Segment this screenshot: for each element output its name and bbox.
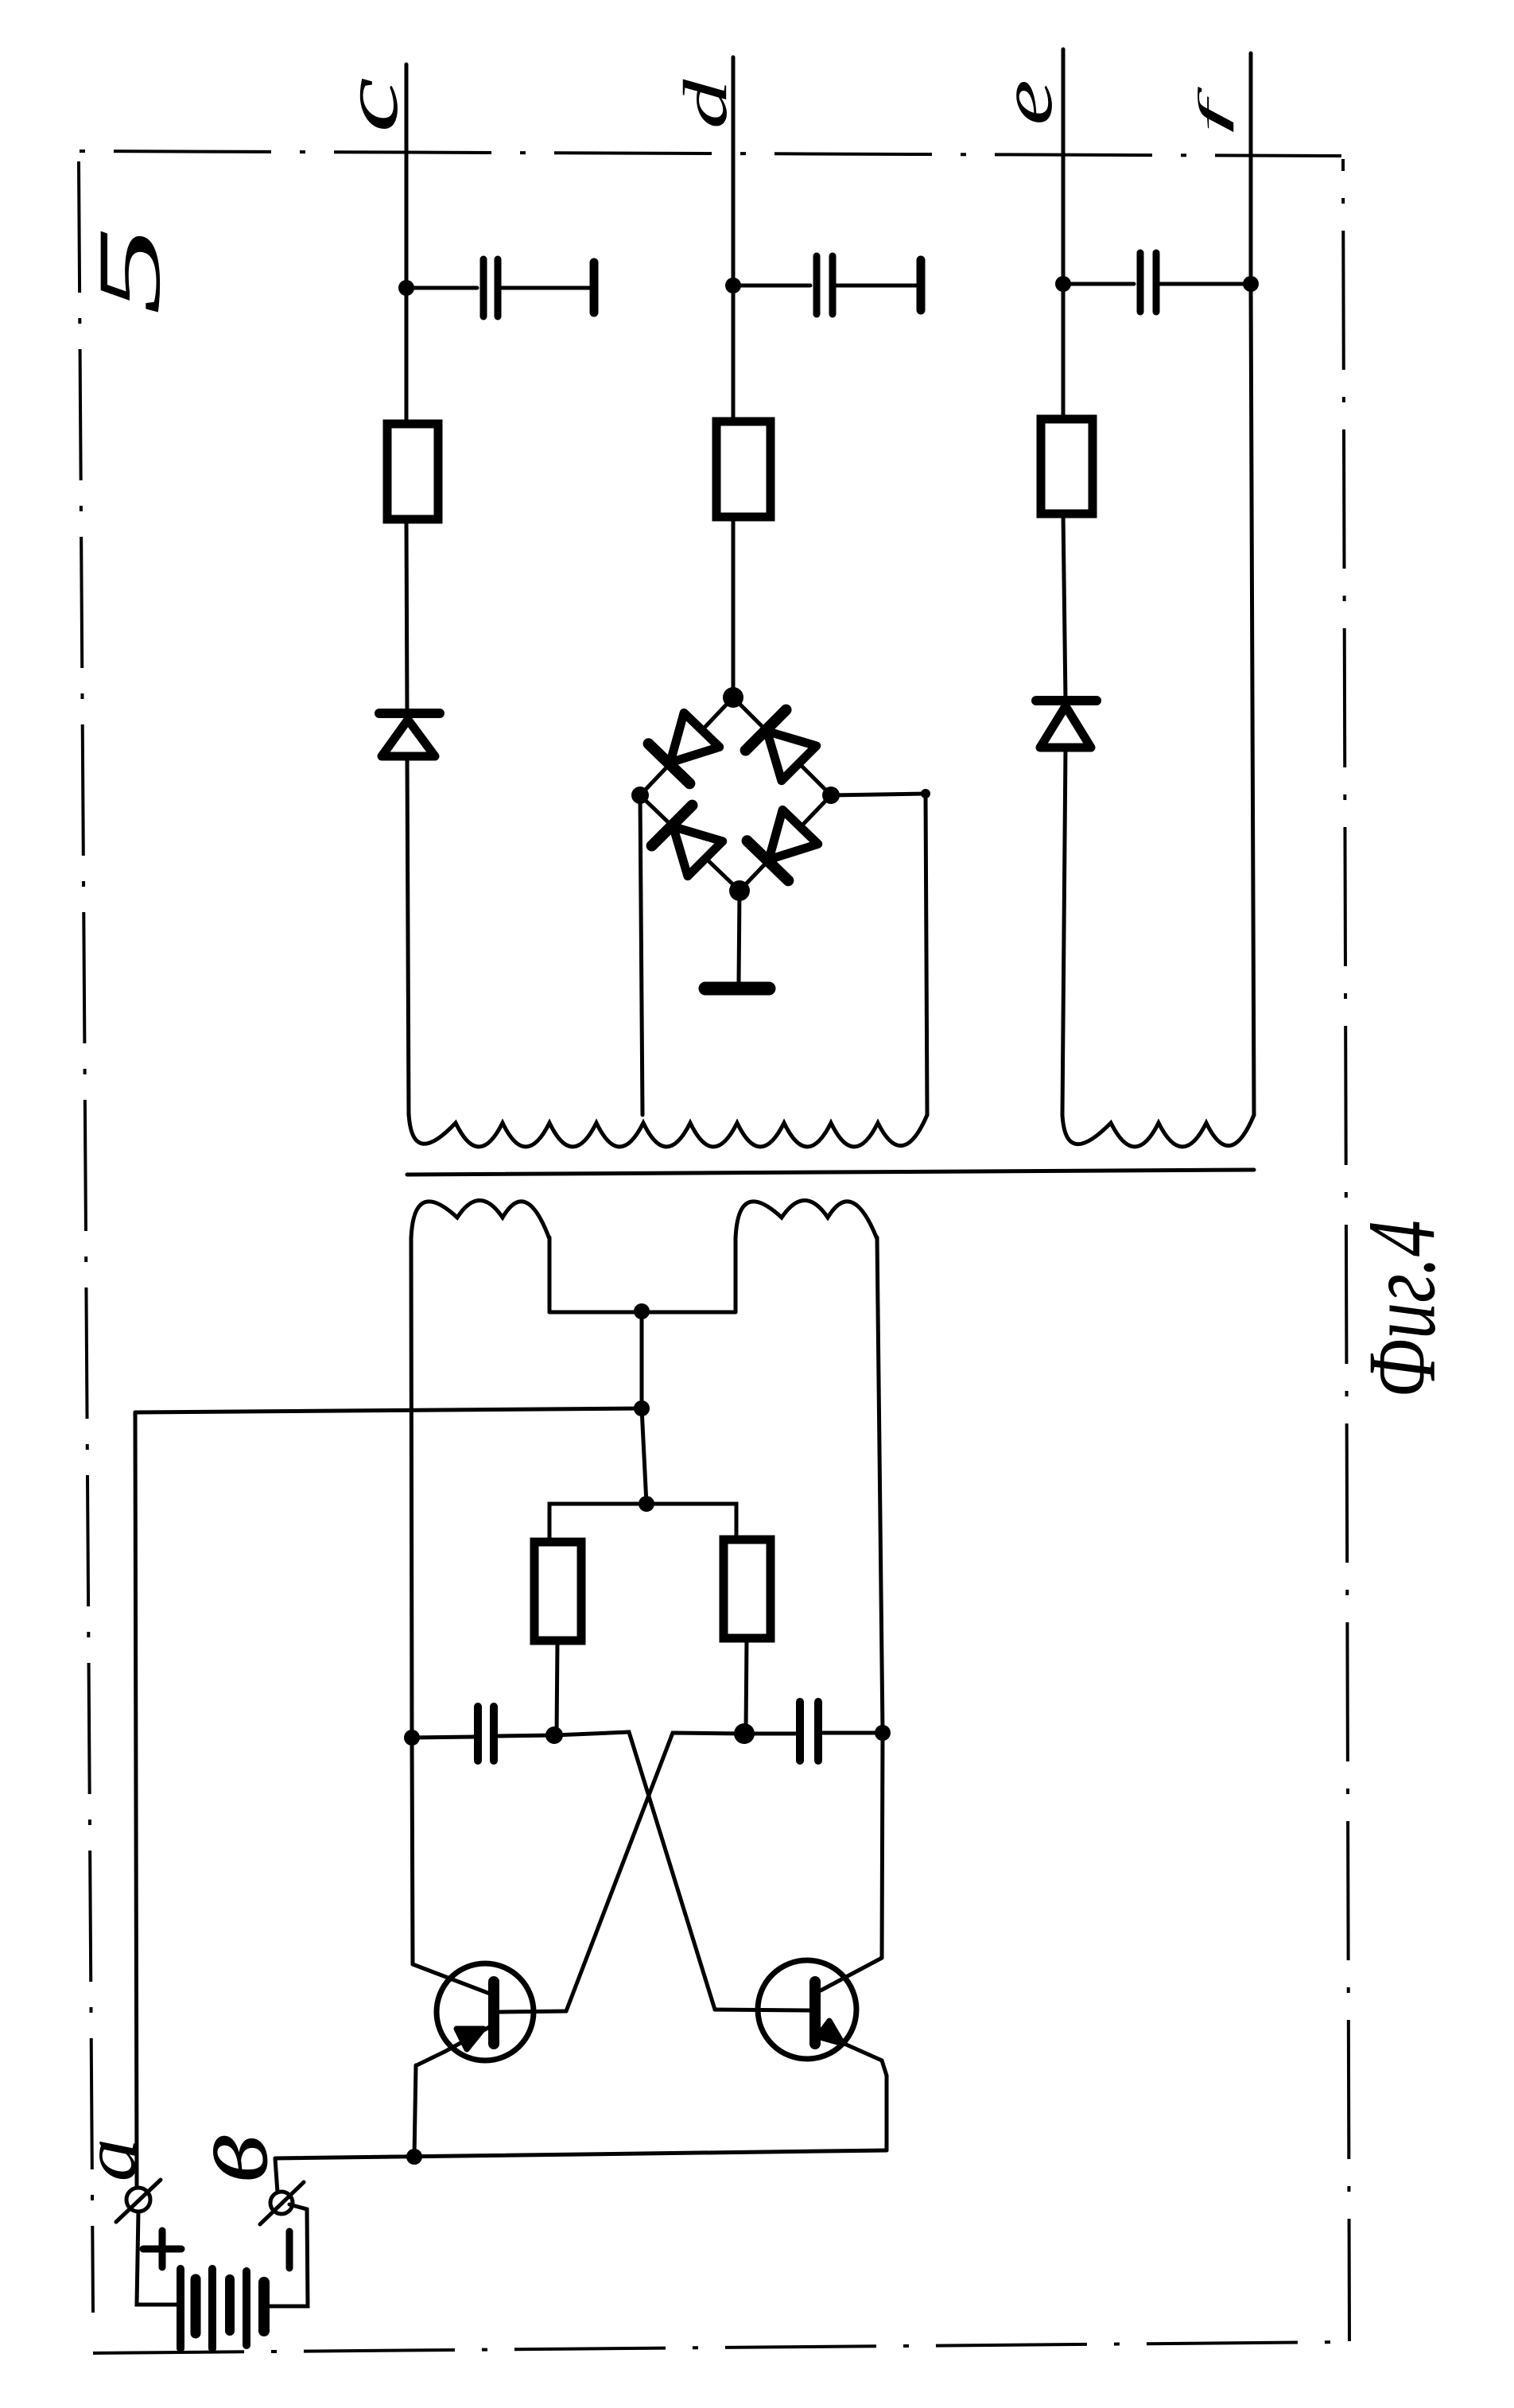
wire a down [135, 1412, 137, 2188]
resistor R-c [387, 424, 438, 519]
wire c resistor to diode [406, 519, 407, 713]
wire to battery plus (long horizontal) [135, 1408, 642, 1412]
cross wire A (left node to right base) [554, 1732, 715, 2010]
bridge diode VD4 bottom-right [747, 807, 821, 880]
resistor R1 [534, 1542, 581, 1641]
right rail [877, 1237, 883, 1733]
transformer core [407, 1170, 1254, 1175]
wire bridge right to down [831, 794, 927, 1115]
node e junction [1055, 276, 1071, 292]
bridge arm bottom-left [640, 795, 740, 891]
svg-text:d: d [670, 79, 740, 130]
resistor R-e [1041, 419, 1093, 514]
terminal b slash [260, 2182, 304, 2224]
left rail [411, 1237, 412, 1738]
border frame [79, 151, 1349, 2353]
transistor T1 base bar [488, 1982, 499, 2044]
transistor T2 emitter arrow [817, 2021, 843, 2044]
wire c diode to winding [407, 756, 409, 1115]
wire to capacitor C1 [412, 1737, 475, 1738]
node supply junction [634, 1400, 650, 1416]
resistor R-d [716, 421, 771, 517]
node f junction [1243, 276, 1259, 292]
bridge arm top-left [640, 697, 733, 795]
capacitor C-ef plates [1137, 253, 1144, 312]
wire to capacitor C2 [744, 1732, 795, 1736]
transistor T2 collector lead [821, 1958, 882, 1990]
wire C1 to node [499, 1735, 554, 1736]
wire primary right inner up [734, 1237, 738, 1312]
wire f [1249, 53, 1253, 284]
bridge arm bottom-right [740, 795, 831, 891]
bridge node top [723, 687, 743, 708]
wire d to capacitor [733, 284, 810, 288]
wire terminal a to battery plus [137, 2212, 177, 2305]
svg-text:a: a [68, 2138, 152, 2182]
transistor T1 emitter [417, 2025, 492, 2065]
svg-text:e: e [986, 80, 1068, 126]
transformer primary winding L1a [411, 1201, 549, 1240]
wire T1 emitter down [414, 2065, 416, 2157]
node c junction [398, 280, 414, 296]
wire e upper [1062, 49, 1066, 419]
base wire right transistor [715, 2010, 810, 2010]
cross wire B (right node to left base) [566, 1733, 744, 2011]
bridge node bottom [729, 880, 750, 901]
wire capacitor d to terminal [837, 284, 921, 288]
bridge node right [822, 786, 840, 804]
wire R2 down [746, 1638, 747, 1733]
transistor T1 collector lead [413, 1964, 490, 1994]
capacitor C1 plates [474, 1707, 482, 1761]
diode V-c [379, 713, 440, 756]
node emitter rail [406, 2149, 422, 2165]
wire c upper [405, 64, 409, 424]
wire capacitor ef to f [1160, 282, 1251, 286]
minus sign [286, 2231, 293, 2268]
wire R1 down [557, 1641, 557, 1735]
wire bridge left down [640, 795, 642, 1115]
svg-text:c: c [328, 77, 414, 133]
resistor R2 [724, 1540, 771, 1638]
wire d resistor to bridge [732, 517, 736, 697]
wire center down 2 [642, 1408, 646, 1504]
node C2-R2 [734, 1723, 755, 1744]
svg-text:в: в [165, 2134, 291, 2183]
wire C2 to right rail [823, 1731, 883, 1735]
terminal a slash [116, 2180, 161, 2222]
node C1-R1 [545, 1726, 563, 1744]
transistor T2 emitter [817, 2028, 887, 2150]
transformer secondary winding L2 (c-d) [409, 1113, 927, 1147]
diode V-e [1036, 701, 1097, 748]
bridge arm top-right [733, 697, 831, 795]
node resistor feed junction [639, 1496, 654, 1512]
wire capacitor to terminal [502, 286, 594, 290]
wire bridge bottom to ground [739, 891, 740, 983]
wire e to capacitor [1063, 282, 1134, 286]
wire primary left inner down [548, 1237, 552, 1312]
node d junction [725, 278, 741, 293]
emitter rail [275, 2150, 887, 2158]
capacitor C-c plates [480, 259, 487, 317]
wire c to capacitor [406, 286, 477, 290]
wire e resistor to diode [1063, 514, 1066, 701]
wire primary bottom horizontal [549, 1311, 736, 1315]
transformer secondary winding L3 (e-f) [1062, 1115, 1254, 1147]
transistor T1 [437, 1963, 534, 2060]
bridge node left [631, 786, 649, 804]
svg-text:5: 5 [80, 226, 179, 315]
bridge diode VD1 top-left [649, 710, 723, 783]
capacitor C2 plates [796, 1702, 804, 1761]
node bridge right corner [921, 789, 930, 798]
svg-text:Фиг.4: Фиг.4 [1349, 1220, 1455, 1398]
node left cap rail [404, 1730, 420, 1746]
capacitor C-d plates [813, 256, 821, 314]
wire center down 1 [640, 1311, 644, 1408]
node primary center [634, 1303, 650, 1319]
bridge diode VD3 bottom-left [652, 806, 726, 880]
wire d upper [732, 57, 736, 421]
ground [705, 982, 769, 996]
terminal b [270, 2192, 293, 2214]
transistor T2 base bar [809, 1982, 821, 2044]
battery GB plates [181, 2269, 264, 2348]
transformer primary winding L1b [736, 1201, 877, 1240]
base wire left transistor [499, 2011, 566, 2012]
terminal bar c-cap [590, 262, 599, 313]
node right cap rail [875, 1725, 891, 1741]
plus sign [143, 2246, 181, 2253]
transistor T2 [758, 1960, 856, 2059]
wire e diode to winding [1062, 748, 1066, 1115]
terminal a [126, 2188, 150, 2212]
wire to left mv resistor [549, 1504, 646, 1542]
transistor T1 emitter arrow [456, 2029, 483, 2049]
wire rail to terminal b [275, 2158, 278, 2192]
wire to right mv resistor [646, 1504, 736, 1540]
bridge diode VD2 top-right [746, 710, 820, 784]
wire terminal b to battery minus [270, 2204, 308, 2306]
terminal bar d-cap [917, 260, 926, 310]
